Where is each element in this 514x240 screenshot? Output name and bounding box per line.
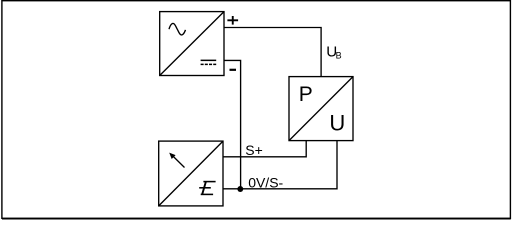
wire: U1 "+" output to U2 top (supply UB) xyxy=(224,28,321,77)
junction node (0V/S- net) xyxy=(237,186,243,192)
label - (negative supply terminal) xyxy=(230,69,237,71)
arrow symbol in U3 xyxy=(169,153,184,168)
label UB (supply voltage) xyxy=(326,43,341,60)
DC symbol (dashed line) in U1 xyxy=(201,63,217,65)
svg-text:P: P xyxy=(299,83,313,106)
svg-text:S+: S+ xyxy=(245,142,263,158)
transducer U2 (P/U converter) xyxy=(289,77,353,141)
wire: U1 "-" output down to 0V/S- net xyxy=(224,60,241,188)
svg-text:U: U xyxy=(329,111,345,136)
label + (positive supply terminal) xyxy=(227,16,238,25)
svg-text:0V/S-: 0V/S- xyxy=(248,175,283,191)
svg-text:B: B xyxy=(336,51,342,61)
DC symbol (solid line) in U1 xyxy=(201,59,217,61)
label E (measurand) in U3 xyxy=(199,182,215,195)
power supply unit U1 (AC/DC converter) xyxy=(160,12,224,76)
AC symbol (sine wave) in U1 xyxy=(169,23,186,34)
wire: U3 0V/S- output to U2 bottom-right pin xyxy=(223,141,337,189)
wire: U3 S+ output to U2 bottom-left pin xyxy=(223,141,306,157)
sensor U3 (measuring element E) xyxy=(159,141,223,206)
